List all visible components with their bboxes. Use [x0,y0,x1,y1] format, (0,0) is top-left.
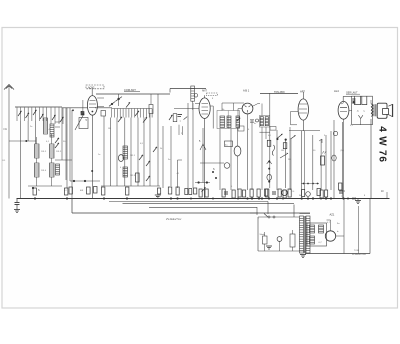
svg-text:ANT: ANT [202,90,207,93]
svg-text:AL4: AL4 [334,89,339,93]
svg-text:A B 1: A B 1 [243,88,250,92]
svg-text:TON ABN: TON ABN [274,91,285,94]
svg-text:1M: 1M [281,150,284,152]
svg-text:4J: 4J [64,190,66,192]
svg-text:101.5: 101.5 [41,151,47,153]
svg-text:4c: 4c [254,123,256,125]
svg-text:4 W 76: 4 W 76 [377,126,388,162]
svg-text:101.4: 101.4 [41,170,47,172]
svg-text:1M: 1M [108,128,111,130]
svg-text:(50): (50) [341,150,345,152]
svg-text:AZ1: AZ1 [330,213,335,217]
svg-text:COM ANT: COM ANT [124,88,136,92]
svg-text:1 0: 1 0 [292,191,295,193]
svg-text:2M: 2M [288,159,291,161]
svg-text:101.5: 101.5 [56,151,62,153]
svg-text:TON: TON [354,250,359,252]
svg-text:111.1: 111.1 [130,155,136,157]
svg-text:4J: 4J [49,129,51,131]
svg-text:111.3: 111.3 [130,175,136,177]
svg-text:AF7: AF7 [300,89,305,93]
svg-text:2V-Akku/7mv: 2V-Akku/7mv [166,217,182,221]
svg-text:ACH2: ACH2 [88,86,95,89]
svg-text:SCHNUR LMS: SCHNUR LMS [352,254,366,256]
